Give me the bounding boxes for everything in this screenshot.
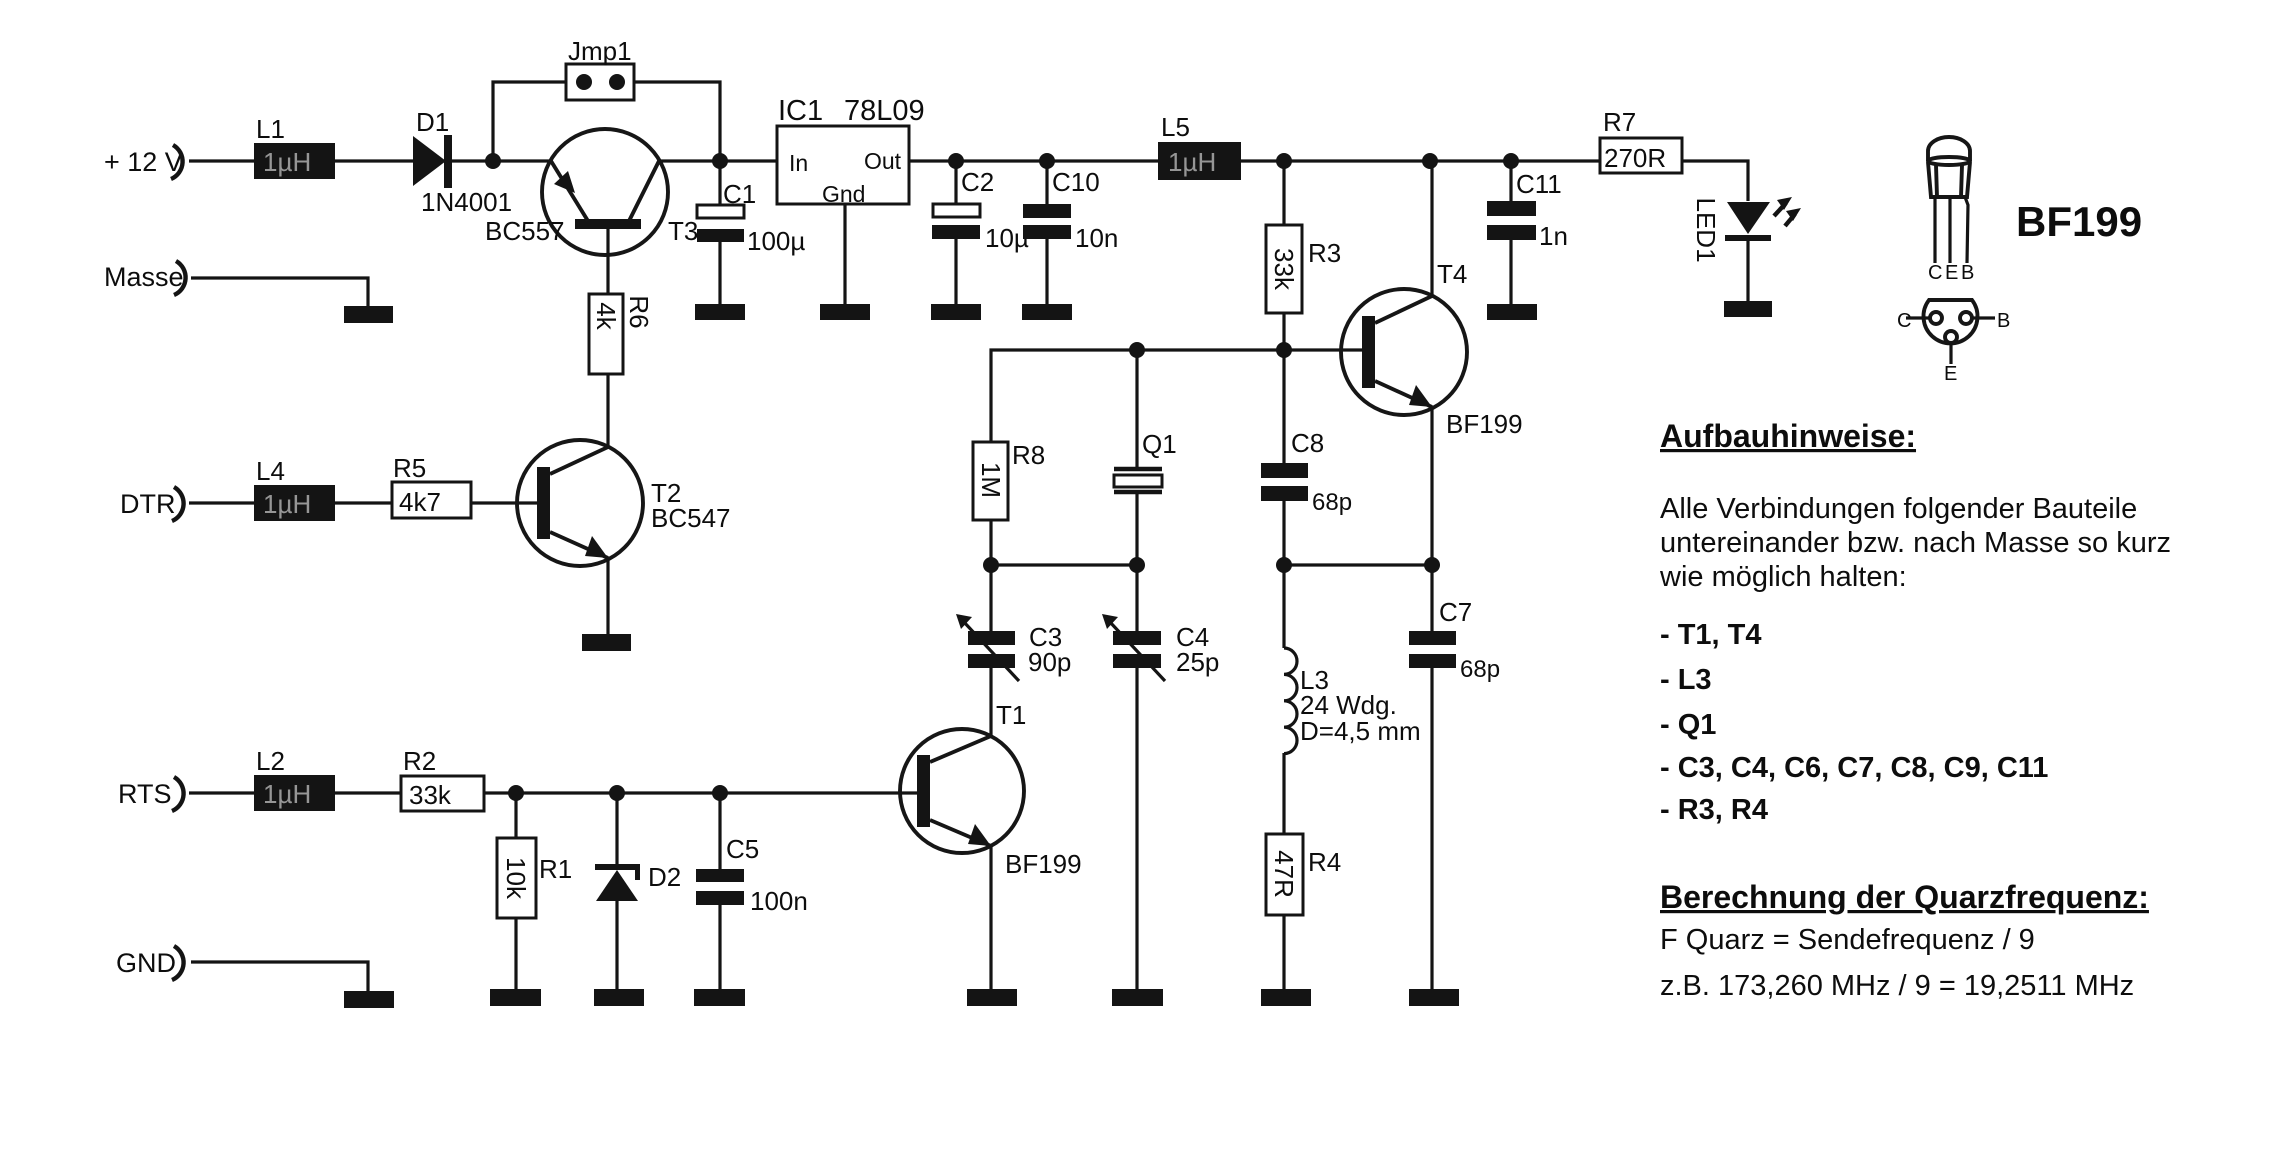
capacitor C4 25p trimmer <box>1102 614 1219 681</box>
svg-text:1µH: 1µH <box>263 147 311 177</box>
svg-text:C5: C5 <box>726 834 759 864</box>
capacitor C5 100n <box>696 834 808 916</box>
wire <box>1746 240 1749 301</box>
svg-text:BF199: BF199 <box>1005 849 1082 879</box>
svg-text:BC547: BC547 <box>651 503 731 533</box>
svg-text:R8: R8 <box>1012 440 1045 470</box>
wire <box>843 204 846 304</box>
note item R3 R4 <box>1660 794 1768 826</box>
connector RTS <box>118 777 184 811</box>
svg-text:- C3, C4, C6, C7, C8, C9, C11: - C3, C4, C6, C7, C8, C9, C11 <box>1660 752 2048 784</box>
svg-text:C7: C7 <box>1439 597 1472 627</box>
wire <box>1135 492 1138 565</box>
svg-text:Jmp1: Jmp1 <box>568 36 632 66</box>
svg-text:R2: R2 <box>403 746 436 776</box>
ground Masse <box>344 306 393 323</box>
crystal Q1 <box>1114 429 1177 492</box>
wire <box>484 791 917 794</box>
svg-text:R6: R6 <box>624 295 654 328</box>
transistor T2 BC547 <box>517 440 731 566</box>
ground GND <box>344 991 394 1008</box>
pin C bottom <box>1897 310 1930 332</box>
wire <box>1282 565 1285 648</box>
svg-text:1µH: 1µH <box>263 779 311 809</box>
wire <box>1282 501 1285 565</box>
svg-text:25p: 25p <box>1176 647 1219 677</box>
resistor R6 4k <box>589 294 654 374</box>
wire <box>1282 161 1285 225</box>
ground C2 <box>931 304 981 320</box>
svg-text:1µH: 1µH <box>1168 147 1216 177</box>
inductor L2 <box>254 746 335 811</box>
wire <box>909 159 1158 162</box>
note heading Berechnung <box>1660 879 2149 915</box>
ground R4 <box>1261 989 1311 1006</box>
wire <box>1430 407 1433 565</box>
wire <box>514 793 517 838</box>
wire <box>1509 240 1512 304</box>
wire <box>989 565 992 631</box>
ground R1 <box>490 989 541 1006</box>
wire <box>189 501 254 504</box>
svg-text:Out: Out <box>864 148 902 174</box>
wire <box>514 918 517 989</box>
svg-text:4k: 4k <box>591 302 621 330</box>
connector DTR <box>120 487 184 521</box>
transistor package BF199 side view <box>1928 137 1970 197</box>
node C2 <box>948 153 964 169</box>
wire <box>615 901 618 989</box>
wire <box>659 159 777 162</box>
wire <box>718 905 721 989</box>
svg-text:- T1, T4: - T1, T4 <box>1660 619 1762 651</box>
wire <box>493 82 566 161</box>
transistor T4 BF199 <box>1341 259 1523 439</box>
wire <box>1282 753 1285 834</box>
diode D1 1N4001 <box>413 107 512 217</box>
svg-text:R5: R5 <box>393 453 426 483</box>
svg-text:10µ: 10µ <box>985 223 1029 253</box>
transistor package BF199 bottom view <box>1923 300 1977 343</box>
wire <box>718 242 721 304</box>
ground C5 <box>694 989 745 1006</box>
note formula <box>1660 924 2035 956</box>
node R3 <box>1276 153 1292 169</box>
pin B lead <box>1965 197 1968 263</box>
ground LED1 <box>1724 301 1772 317</box>
svg-text:100n: 100n <box>750 886 808 916</box>
svg-text:68p: 68p <box>1460 656 1500 683</box>
wire <box>1509 161 1512 201</box>
connector Masse <box>104 261 186 295</box>
svg-text:1µH: 1µH <box>263 489 311 519</box>
note heading Aufbauhinweise <box>1660 418 1916 454</box>
ground C10 <box>1022 304 1072 320</box>
svg-text:Gnd: Gnd <box>822 181 865 207</box>
svg-text:10k: 10k <box>501 857 531 900</box>
svg-text:R7: R7 <box>1603 107 1636 137</box>
svg-text:Aufbauhinweise:: Aufbauhinweise: <box>1660 418 1916 454</box>
wire <box>989 520 992 565</box>
node T4 emitter <box>1424 557 1440 573</box>
wire <box>335 791 401 794</box>
resistor R5 4k7 <box>392 453 471 518</box>
svg-text:C2: C2 <box>961 167 994 197</box>
node Q1 bottom <box>1129 557 1145 573</box>
svg-text:C1: C1 <box>723 179 756 209</box>
wire <box>1282 915 1285 989</box>
resistor R8 1M <box>973 440 1045 520</box>
svg-text:R1: R1 <box>539 854 572 884</box>
ground C1 <box>695 304 745 320</box>
capacitor C7 68p <box>1409 565 1500 683</box>
wire <box>1430 161 1433 296</box>
ground IC1 <box>820 304 870 320</box>
svg-text:GND: GND <box>116 948 176 978</box>
svg-text:L2: L2 <box>256 746 285 776</box>
wire <box>954 239 957 304</box>
wire <box>471 501 537 504</box>
svg-text:+ 12 V: + 12 V <box>104 147 183 177</box>
svg-text:BC557: BC557 <box>485 216 565 246</box>
inductor L5 <box>1158 112 1241 180</box>
wire <box>335 159 413 162</box>
node D2 <box>609 785 625 801</box>
svg-text:T1: T1 <box>996 700 1026 730</box>
ground T2 <box>582 634 631 651</box>
connector GND <box>116 946 184 980</box>
wire <box>1135 350 1138 468</box>
svg-text:R3: R3 <box>1308 238 1341 268</box>
svg-text:- L3: - L3 <box>1660 664 1712 696</box>
ground C11 <box>1487 304 1537 320</box>
resistor R4 47R <box>1266 834 1341 915</box>
node Q1 top <box>1129 342 1145 358</box>
svg-text:BF199: BF199 <box>1446 409 1523 439</box>
wire <box>1045 239 1048 304</box>
wire <box>1135 668 1138 989</box>
svg-text:1M: 1M <box>976 462 1006 498</box>
capacitor C1 100u <box>697 179 805 256</box>
svg-text:78L09: 78L09 <box>844 95 925 127</box>
note example <box>1660 970 2134 1002</box>
note item T1 T4 <box>1660 619 1762 651</box>
svg-text:- Q1: - Q1 <box>1660 709 1716 741</box>
wire <box>989 846 992 989</box>
connector +12V <box>104 145 183 179</box>
node at D1/Jmp1 <box>485 153 501 169</box>
inductor L4 <box>254 456 335 521</box>
wire <box>1241 159 1600 162</box>
transistor T1 BF199 <box>900 700 1082 879</box>
svg-text:B: B <box>1997 310 2010 332</box>
wire T4 base net <box>991 350 1362 442</box>
svg-text:wie möglich halten:: wie möglich halten: <box>1659 561 1907 593</box>
svg-text:Berechnung der Quarzfrequenz:: Berechnung der Quarzfrequenz: <box>1660 879 2149 915</box>
LED LED1 <box>1691 197 1801 263</box>
svg-text:T4: T4 <box>1437 259 1467 289</box>
capacitor C8 68p <box>1261 350 1352 516</box>
capacitor C2 10u <box>932 167 1029 253</box>
svg-text:C8: C8 <box>1291 428 1324 458</box>
node C11 <box>1503 153 1519 169</box>
ground C4 <box>1112 989 1163 1006</box>
node C5 <box>712 785 728 801</box>
ground T1 <box>967 989 1017 1006</box>
svg-text:DTR: DTR <box>120 489 176 519</box>
svg-text:Masse: Masse <box>104 262 184 292</box>
node R8 bottom <box>983 557 999 573</box>
svg-text:R4: R4 <box>1308 847 1341 877</box>
resistor R3 33k <box>1266 225 1341 313</box>
svg-text:In: In <box>789 150 808 176</box>
pin E lead <box>1948 197 1951 263</box>
svg-text:IC1: IC1 <box>778 95 823 127</box>
wire <box>606 374 609 447</box>
note item capacitors <box>1660 752 2048 784</box>
capacitor C3 90p trimmer <box>956 614 1071 681</box>
transistor T3 BC557 <box>485 129 698 294</box>
node C10 <box>1039 153 1055 169</box>
diode D2 zener <box>595 862 681 901</box>
ground D2 <box>594 989 644 1006</box>
svg-text:Q1: Q1 <box>1142 429 1177 459</box>
svg-text:D1: D1 <box>416 107 449 137</box>
svg-text:D2: D2 <box>648 862 681 892</box>
svg-text:47R: 47R <box>1269 850 1299 898</box>
svg-text:T3: T3 <box>668 216 698 246</box>
wire <box>191 962 368 991</box>
svg-text:BF199: BF199 <box>2016 198 2142 245</box>
svg-text:1n: 1n <box>1539 221 1568 251</box>
svg-text:L4: L4 <box>256 456 285 486</box>
wire <box>189 791 254 794</box>
node C1 <box>712 153 728 169</box>
svg-text:LED1: LED1 <box>1691 197 1721 262</box>
note item L3 <box>1660 664 1712 696</box>
wire <box>606 558 609 634</box>
IC U1 78L09 <box>777 95 925 207</box>
wire <box>1135 565 1138 631</box>
svg-text:Alle Verbindungen folgender Ba: Alle Verbindungen folgender Bauteile <box>1660 493 2137 525</box>
svg-text:L1: L1 <box>256 114 285 144</box>
capacitor C11 1n <box>1487 169 1568 251</box>
wire <box>954 161 957 204</box>
node C8 bottom <box>1276 557 1292 573</box>
svg-text:E: E <box>1945 262 1958 284</box>
wire R8/Q1 bottom net <box>991 563 1137 566</box>
svg-text:4k7: 4k7 <box>399 487 441 517</box>
pin labels C E B <box>1928 262 1974 284</box>
svg-text:D=4,5 mm: D=4,5 mm <box>1300 716 1421 746</box>
note item Q1 <box>1660 709 1716 741</box>
svg-text:E: E <box>1944 363 1957 385</box>
svg-text:C: C <box>1897 310 1911 332</box>
inductor L1 <box>254 114 335 179</box>
svg-text:90p: 90p <box>1028 647 1071 677</box>
wire <box>989 668 992 736</box>
wire <box>634 82 720 161</box>
svg-text:B: B <box>1961 262 1974 284</box>
wire <box>1045 161 1048 204</box>
svg-text:68p: 68p <box>1312 489 1352 516</box>
svg-text:z.B. 173,260 MHz / 9 = 19,2511: z.B. 173,260 MHz / 9 = 19,2511 MHz <box>1660 970 2134 1002</box>
wire <box>452 159 551 162</box>
wire <box>1430 668 1433 989</box>
svg-text:33k: 33k <box>1269 248 1299 291</box>
node R1 <box>508 785 524 801</box>
wire C8/C7 bottom net <box>1284 563 1432 566</box>
svg-text:1N4001: 1N4001 <box>421 187 512 217</box>
svg-text:untereinander bzw. nach Masse: untereinander bzw. nach Masse so kurz <box>1660 527 2171 559</box>
svg-text:RTS: RTS <box>118 779 172 809</box>
wire <box>191 278 368 306</box>
wire <box>615 793 618 865</box>
svg-text:C10: C10 <box>1052 167 1100 197</box>
svg-text:270R: 270R <box>1604 143 1666 173</box>
svg-text:- R3, R4: - R3, R4 <box>1660 794 1768 826</box>
svg-text:C11: C11 <box>1516 169 1562 199</box>
wire <box>335 501 392 504</box>
pin E bottom <box>1944 343 1957 385</box>
pin B bottom <box>1972 310 2010 332</box>
svg-text:10n: 10n <box>1075 223 1118 253</box>
wire <box>718 161 721 205</box>
pin C lead <box>1933 197 1936 263</box>
svg-text:L5: L5 <box>1161 112 1190 142</box>
jumper Jmp1 <box>566 36 634 100</box>
svg-text:C: C <box>1928 262 1942 284</box>
wire <box>1682 161 1748 201</box>
inductor L3 24 Wdg <box>1284 648 1421 754</box>
ground C7 <box>1409 989 1459 1006</box>
svg-text:33k: 33k <box>409 780 452 810</box>
wire <box>189 159 254 162</box>
note paragraph <box>1659 493 2171 593</box>
svg-text:100µ: 100µ <box>747 226 805 256</box>
node T4 collector <box>1422 153 1438 169</box>
capacitor C10 10n <box>1023 167 1118 253</box>
wire <box>718 793 721 869</box>
label BF199 type <box>2016 198 2142 245</box>
node C8 top <box>1276 342 1292 358</box>
svg-text:F Quarz = Sendefrequenz / 9: F Quarz = Sendefrequenz / 9 <box>1660 924 2035 956</box>
resistor R7 270R <box>1600 107 1682 173</box>
resistor R1 10k <box>497 838 572 918</box>
resistor R2 33k <box>401 746 484 811</box>
wire <box>1282 313 1285 350</box>
